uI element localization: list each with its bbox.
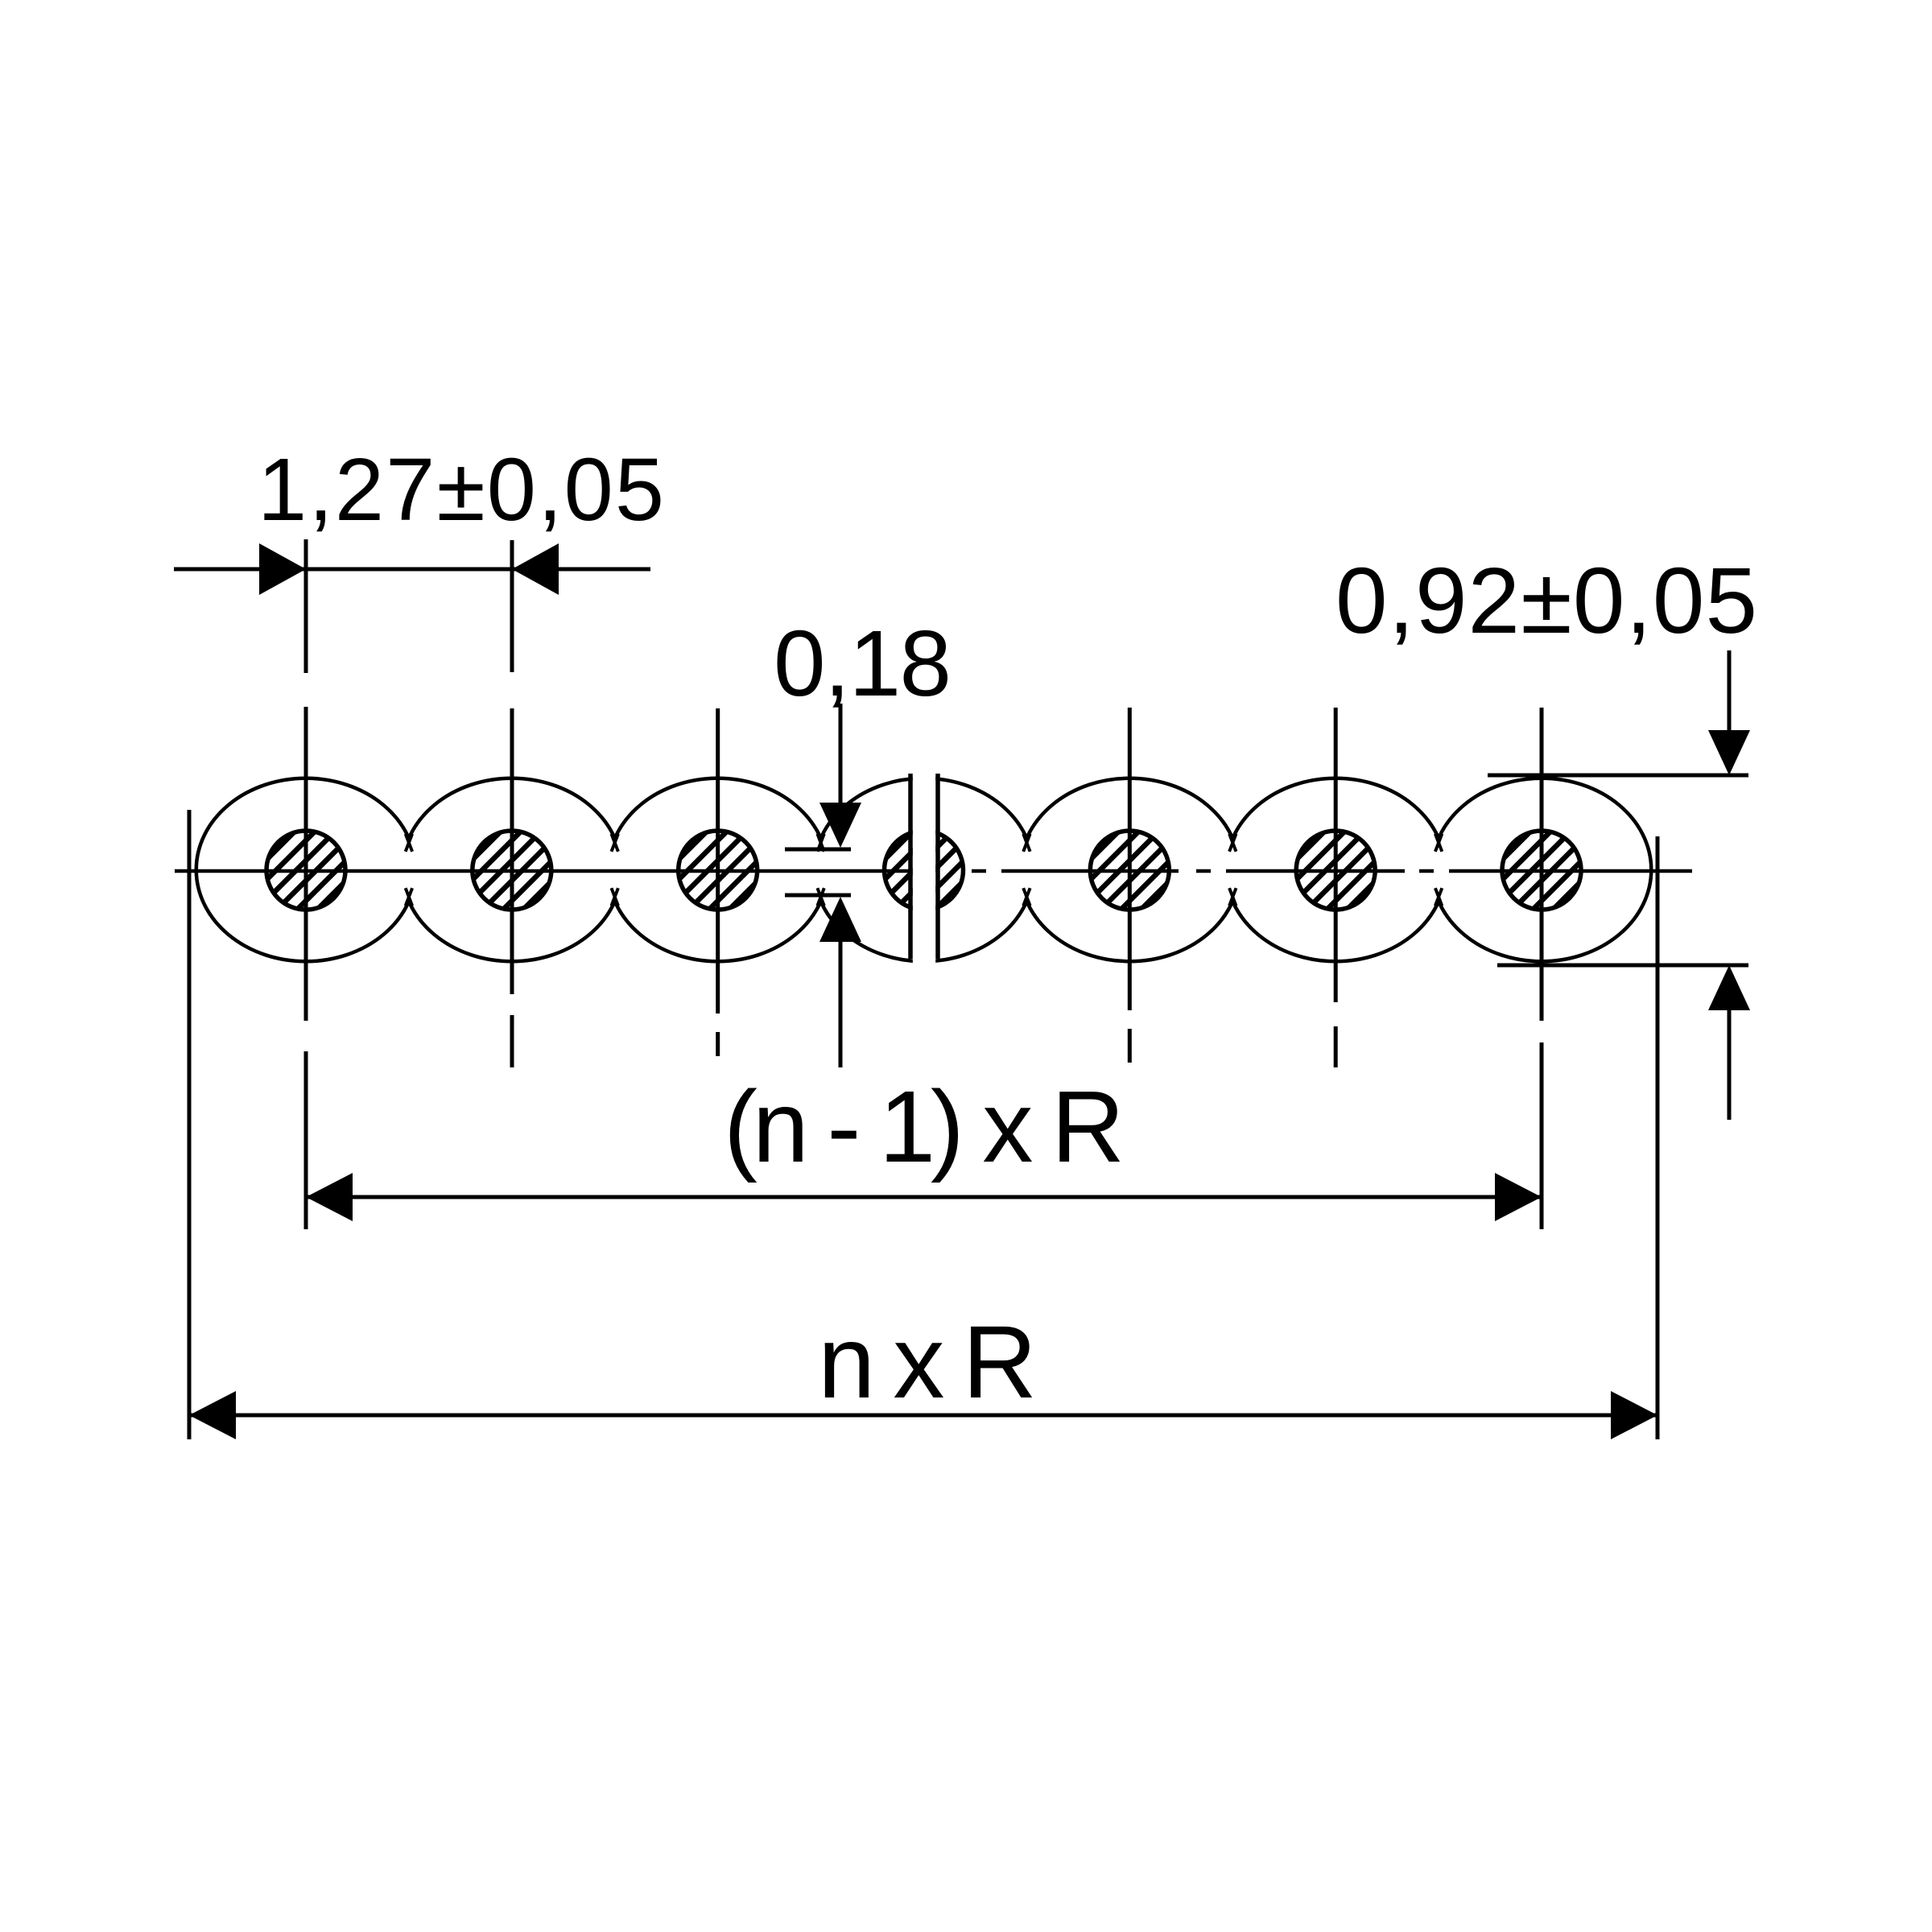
vertical centerline conductor 7 / extension line: [1540, 708, 1544, 1229]
svg-text:n x R: n x R: [818, 1305, 1037, 1420]
conductor 6 (hatched): [1237, 822, 1435, 919]
vertical centerline conductor 6: [1334, 708, 1338, 1067]
conductor 2 (hatched): [414, 822, 611, 919]
arrowhead down at cable top: [1708, 730, 1750, 775]
dimension 0,18 web thickness: [774, 611, 952, 1067]
arrowhead up at cable bottom: [1708, 965, 1750, 1010]
conductor 5 (hatched): [1031, 822, 1228, 919]
break cut line left: [908, 774, 913, 959]
valley cusp crossing tails: [406, 834, 1443, 906]
dimension 1,27±0,05 pitch: [174, 440, 664, 595]
break cut line right: [935, 774, 940, 959]
conductor 4 (hatched, at break): [826, 822, 1023, 919]
arrowhead down at web top: [819, 803, 861, 848]
conductor 3 (hatched): [620, 822, 817, 919]
vertical centerline conductor 1 / extension line: [304, 539, 308, 1229]
web top extension line: [785, 848, 851, 852]
svg-text:(n - 1) x R: (n - 1) x R: [724, 1070, 1125, 1183]
insulation lobe 2: [404, 780, 620, 960]
insulation lobe 6: [1228, 780, 1443, 960]
arrowhead left (points right at conductor 1 axis): [259, 543, 306, 595]
arrowhead right at conductor 7 axis: [1495, 1173, 1542, 1221]
dimension leader below cable: [1728, 1009, 1732, 1120]
dimension line n x R: [189, 1414, 1657, 1418]
insulation lobe 1: [198, 780, 414, 960]
extension line left cable edge: [188, 810, 192, 1439]
dimension leader above cable: [1728, 650, 1732, 730]
web bottom extension line: [785, 894, 851, 898]
dimension line (n - 1) x R: [306, 1195, 1542, 1199]
arrowhead right at cable right edge: [1611, 1391, 1657, 1439]
cable top extension line: [1488, 774, 1748, 778]
vertical centerline conductor 5: [1128, 708, 1132, 1063]
insulation lobe 5: [1022, 780, 1237, 960]
dimension line 1,27 pitch: [174, 568, 650, 572]
arrowhead right (points left at conductor 2 axis): [512, 543, 559, 595]
insulation lobe 7: [1434, 780, 1649, 960]
insulation profile: union outline of 7 overlapping insulation lobes: [198, 780, 1649, 960]
insulation lobe 3: [610, 780, 826, 960]
vertical centerline conductor 3: [716, 708, 720, 1056]
dimension n x R: [189, 1305, 1657, 1439]
arrowhead left at cable left edge: [189, 1391, 236, 1439]
arrowhead up at web bottom: [819, 897, 861, 942]
dimension leader above web: [839, 704, 843, 805]
svg-text:0,92±0,05: 0,92±0,05: [1335, 548, 1757, 653]
conductor 7 (hatched): [1443, 822, 1641, 919]
dimension (n - 1) x R: [306, 1070, 1542, 1221]
horizontal centerline (chain line): [175, 869, 1692, 873]
arrowhead left at conductor 1 axis: [306, 1173, 353, 1221]
conductor 1 (hatched): [208, 822, 405, 919]
extension line right cable edge: [1656, 836, 1660, 1439]
insulation lobe 4: [816, 780, 1032, 960]
svg-text:0,18: 0,18: [774, 611, 952, 716]
dimension 0,92±0,05 thickness: [1335, 548, 1757, 1120]
break gap (cable shown interrupted): [913, 763, 935, 970]
vertical centerline conductor 2 / extension line: [510, 540, 514, 1067]
dimension leader below web: [839, 940, 843, 1067]
cable bottom extension line: [1497, 964, 1748, 968]
svg-text:1,27±0,05: 1,27±0,05: [258, 440, 664, 539]
